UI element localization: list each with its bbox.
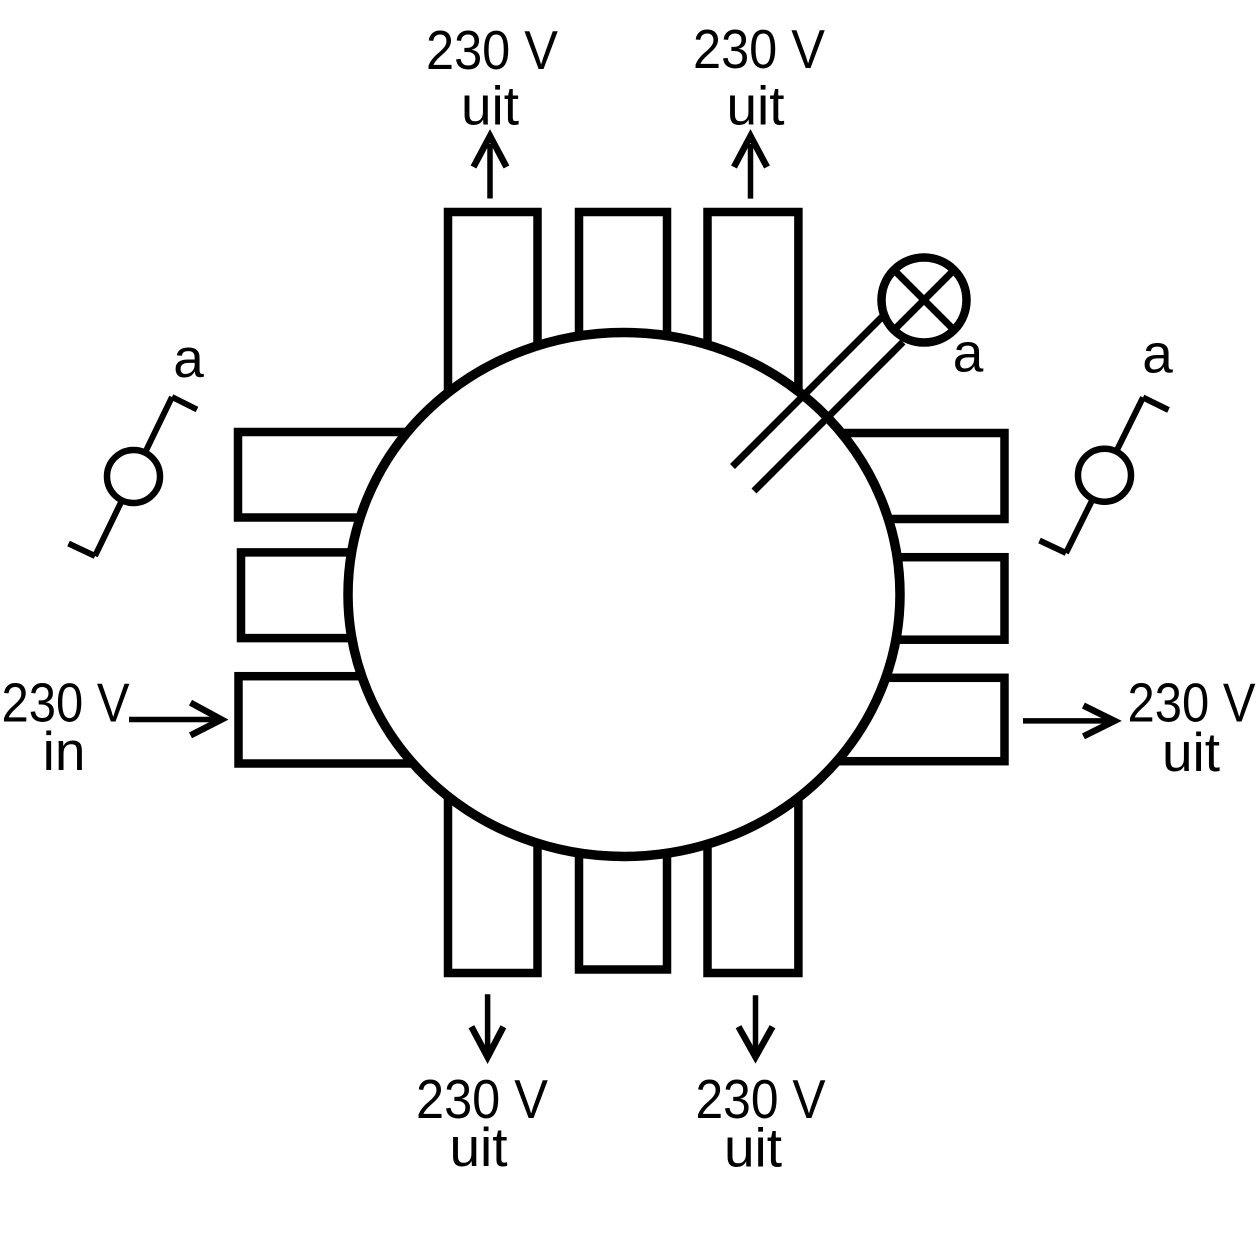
- label 230 V uit (top-right): [693, 18, 825, 137]
- svg-text:uit: uit: [1162, 721, 1220, 783]
- arrow out bottom-left: [471, 994, 503, 1057]
- svg-text:230 V: 230 V: [693, 18, 825, 80]
- wire to lamp (upper conductor): [733, 315, 885, 467]
- svg-text:a: a: [1142, 323, 1173, 385]
- label 230 V uit (bottom-left): [416, 1068, 548, 1178]
- svg-text:uit: uit: [724, 1117, 782, 1179]
- lamp E1 (circle with cross): [882, 258, 967, 343]
- conduit stub left-bottom: [239, 676, 461, 763]
- conduit stub top-middle: [579, 212, 667, 460]
- label 230 V in (left): [2, 672, 130, 783]
- svg-text:in: in: [43, 720, 86, 782]
- junction box (centraaldoos) circle: [348, 333, 900, 857]
- conduit stub left-middle: [241, 552, 460, 638]
- label a (lamp): [953, 322, 984, 384]
- conduit stub bottom-right: [708, 740, 799, 973]
- label 230 V uit (top-left): [426, 19, 558, 137]
- arrow out right: [1023, 706, 1115, 737]
- arrow in left: [129, 703, 222, 736]
- svg-text:uit: uit: [449, 1116, 507, 1178]
- conduit stub right-middle: [790, 557, 1005, 640]
- label 230 V uit (right): [1128, 672, 1256, 784]
- wire to lamp (lower conductor): [754, 342, 903, 491]
- label a (right switch): [1142, 323, 1173, 385]
- switch S2 (right, single-pole): [1040, 398, 1169, 554]
- arrow out top-left: [474, 136, 507, 199]
- arrow out top-right: [734, 136, 767, 199]
- conduit stub top-left: [448, 212, 538, 460]
- label 230 V uit (bottom-right): [696, 1068, 826, 1179]
- switch S1 (left, single-pole): [69, 397, 198, 556]
- conduit stub right-top: [790, 433, 1005, 519]
- svg-text:a: a: [953, 322, 984, 384]
- conduit stub bottom-middle: [579, 740, 667, 970]
- svg-text:a: a: [173, 327, 204, 389]
- svg-text:uit: uit: [461, 75, 519, 137]
- svg-text:230 V: 230 V: [426, 19, 558, 81]
- conduit stub left-top: [238, 432, 460, 518]
- conduit stub top-right: [708, 212, 799, 460]
- conduit stub bottom-left: [448, 740, 538, 973]
- svg-text:uit: uit: [726, 75, 784, 137]
- arrow out bottom-right: [739, 995, 773, 1057]
- conduit stub right-bottom: [790, 678, 1005, 761]
- label a (left switch): [173, 327, 204, 389]
